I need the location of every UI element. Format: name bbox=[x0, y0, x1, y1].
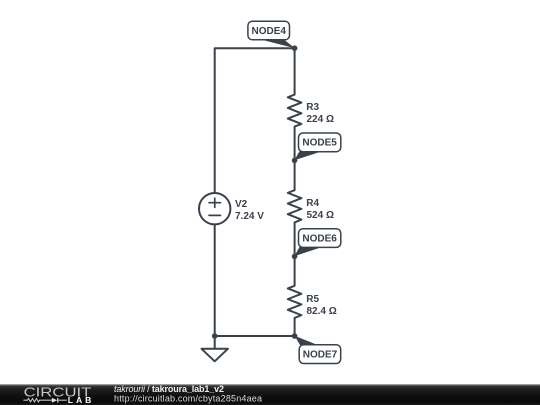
svg-text:NODE5: NODE5 bbox=[302, 138, 337, 149]
svg-text:LAB: LAB bbox=[68, 395, 92, 405]
svg-text:NODE4: NODE4 bbox=[251, 26, 286, 37]
svg-text:R3: R3 bbox=[306, 102, 319, 113]
svg-text:82.4 Ω: 82.4 Ω bbox=[307, 306, 337, 317]
svg-text:NODE7: NODE7 bbox=[303, 350, 338, 361]
svg-text:R4: R4 bbox=[306, 198, 319, 209]
svg-text:takrourii / takroura_lab1_v2: takrourii / takroura_lab1_v2 bbox=[114, 384, 224, 394]
svg-text:V2: V2 bbox=[235, 199, 248, 210]
svg-text:NODE6: NODE6 bbox=[302, 233, 337, 244]
svg-text:R5: R5 bbox=[306, 294, 319, 305]
svg-text:7.24 V: 7.24 V bbox=[235, 211, 264, 222]
svg-text:224 Ω: 224 Ω bbox=[307, 114, 334, 125]
svg-text:524 Ω: 524 Ω bbox=[307, 210, 334, 221]
svg-text:http://circuitlab.com/cbyta285: http://circuitlab.com/cbyta285n4aea bbox=[114, 393, 262, 403]
